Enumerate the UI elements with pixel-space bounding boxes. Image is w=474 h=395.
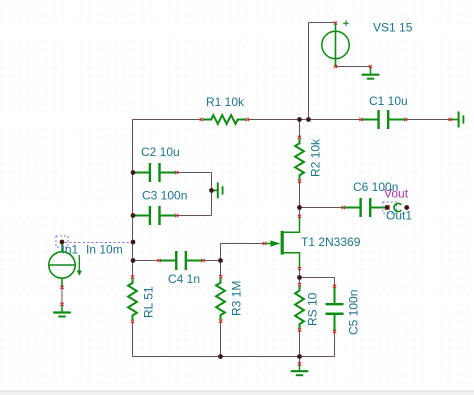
x ground bottom — [298, 362, 301, 365]
resistor R2 — [295, 139, 304, 180]
voltage source VS1 — [322, 24, 349, 67]
x R2 top — [298, 136, 301, 139]
svg-text:T1 2N3369: T1 2N3369 — [301, 235, 361, 249]
resistor RS — [295, 286, 304, 329]
capacitor C2 — [134, 163, 176, 182]
wire R2 top lead — [299, 120, 301, 138]
wire to bottom ground — [299, 357, 301, 364]
x ground VS1 — [369, 65, 372, 68]
selection box In1 terminal — [56, 236, 68, 247]
wire RS bottom — [299, 330, 301, 356]
wire R3 top lead — [220, 261, 222, 277]
resistor RL — [128, 278, 137, 320]
resistor R3 — [216, 278, 225, 320]
svg-text:C3 100n: C3 100n — [142, 189, 187, 203]
svg-text:C4 1n: C4 1n — [168, 272, 200, 286]
VS1 plus sign — [343, 21, 349, 27]
node R2/top rail — [297, 117, 302, 122]
x VS1 bottom — [334, 65, 337, 68]
x C3 right — [175, 214, 178, 217]
x RL top — [131, 275, 134, 278]
In1 arrow — [78, 255, 80, 271]
ground (VS1) — [362, 68, 380, 79]
ground (In1) — [53, 305, 71, 316]
svg-text:C1 10u: C1 10u — [369, 94, 408, 108]
node C4 left — [131, 258, 136, 263]
node dashed line — [131, 240, 136, 245]
node C3 left — [131, 213, 136, 218]
wire R3 bottom lead — [220, 321, 222, 356]
wire top rail left — [133, 119, 202, 121]
node C2 left — [131, 170, 136, 175]
wire bottom rail — [133, 356, 335, 358]
svg-text:Vout: Vout — [384, 187, 409, 201]
x C4 right — [201, 259, 204, 262]
capacitor C3 — [134, 206, 176, 225]
wire VS1 to ground — [336, 66, 371, 68]
node source/RS/C5 — [297, 275, 302, 280]
node ground bottom — [297, 354, 302, 359]
x jumper J2 — [448, 118, 451, 121]
svg-text:In 10m: In 10m — [86, 243, 123, 257]
transistor T1 2N3369 — [266, 217, 300, 268]
svg-text:RL 51: RL 51 — [142, 286, 156, 318]
node R3 bottom — [218, 354, 223, 359]
x C1 right — [404, 118, 407, 121]
wire top rail right — [406, 119, 450, 121]
wire drain to C6 — [300, 207, 344, 209]
x T1 source — [298, 267, 301, 270]
wire drain dark part — [299, 208, 301, 218]
node VS1/top rail — [306, 117, 311, 122]
wire R2 bottom lead — [299, 181, 301, 207]
wire C3 right — [177, 215, 212, 217]
wire VS1 branch vertical — [308, 23, 310, 120]
wire left vertical rail lower — [132, 322, 134, 357]
wire gate horizontal — [221, 243, 265, 245]
capacitor C4 — [160, 251, 202, 270]
node gate/R3/C4 — [218, 258, 223, 263]
wire left vertical rail upper — [132, 120, 134, 277]
x In1 bottom — [60, 286, 63, 289]
x VS1 top — [334, 21, 337, 24]
x R1 left — [200, 118, 203, 121]
jumper J2 (top right) — [450, 112, 463, 128]
node In1 top — [60, 240, 65, 245]
wire C2 right — [177, 172, 212, 174]
x C4 left — [157, 259, 160, 262]
svg-text:R3 1M: R3 1M — [230, 281, 244, 316]
svg-text:R2 10k: R2 10k — [309, 138, 323, 177]
x C2 right — [175, 171, 178, 174]
resistor R1 — [203, 115, 246, 124]
wire C2-C3 right vertical — [211, 173, 213, 216]
svg-text:VS1 15: VS1 15 — [373, 21, 413, 35]
dashed net line In — [65, 242, 131, 244]
x C6 left — [341, 206, 344, 209]
wire C5 bottom — [334, 332, 336, 357]
x T1 gate — [263, 242, 266, 245]
svg-text:C5 100n: C5 100n — [347, 290, 361, 335]
x R1 right — [246, 118, 249, 121]
x R2 bottom — [298, 180, 301, 183]
svg-text:Out1: Out1 — [386, 209, 412, 223]
node drain — [297, 205, 302, 210]
wire In1 bottom lead — [61, 278, 63, 304]
output pin Out1 — [383, 202, 397, 213]
x C1 left — [359, 118, 362, 121]
svg-text:R1 10k: R1 10k — [206, 95, 245, 109]
wire source to C5 — [300, 277, 335, 279]
x T1 drain — [298, 215, 301, 218]
x C5 top — [333, 285, 336, 288]
wire C5 top lead — [334, 278, 336, 287]
x R3 bottom — [219, 320, 222, 323]
x RS bottom — [298, 328, 301, 331]
ground (bottom) — [291, 364, 309, 375]
bottom gray band — [0, 392, 474, 395]
capacitor C5 — [326, 287, 344, 330]
wire C4 right — [203, 260, 221, 262]
svg-text:In1: In1 — [62, 243, 79, 257]
current source In1 — [49, 243, 75, 287]
svg-text:RS 10: RS 10 — [306, 292, 320, 326]
wire VS1 branch top — [309, 22, 336, 24]
node jumper — [209, 188, 214, 193]
wire source dark part — [299, 268, 301, 278]
wire top rail middle — [248, 119, 362, 121]
wire C4 left — [133, 260, 159, 262]
wire In1 top lead — [61, 242, 63, 252]
x C5 bottom — [333, 330, 336, 333]
x R3 top — [219, 275, 222, 278]
jumper J1 (C2/C3 right) — [212, 182, 223, 198]
svg-text:C2 10u: C2 10u — [141, 145, 180, 159]
wire gate vertical — [220, 244, 222, 261]
x RS top — [298, 283, 301, 286]
capacitor C6 — [344, 198, 387, 217]
x RL bottom — [131, 320, 134, 323]
capacitor C1 — [362, 110, 405, 129]
wire RS top lead — [299, 278, 301, 285]
x ground In1 — [60, 303, 63, 306]
wire C6 to out pin — [383, 207, 387, 209]
